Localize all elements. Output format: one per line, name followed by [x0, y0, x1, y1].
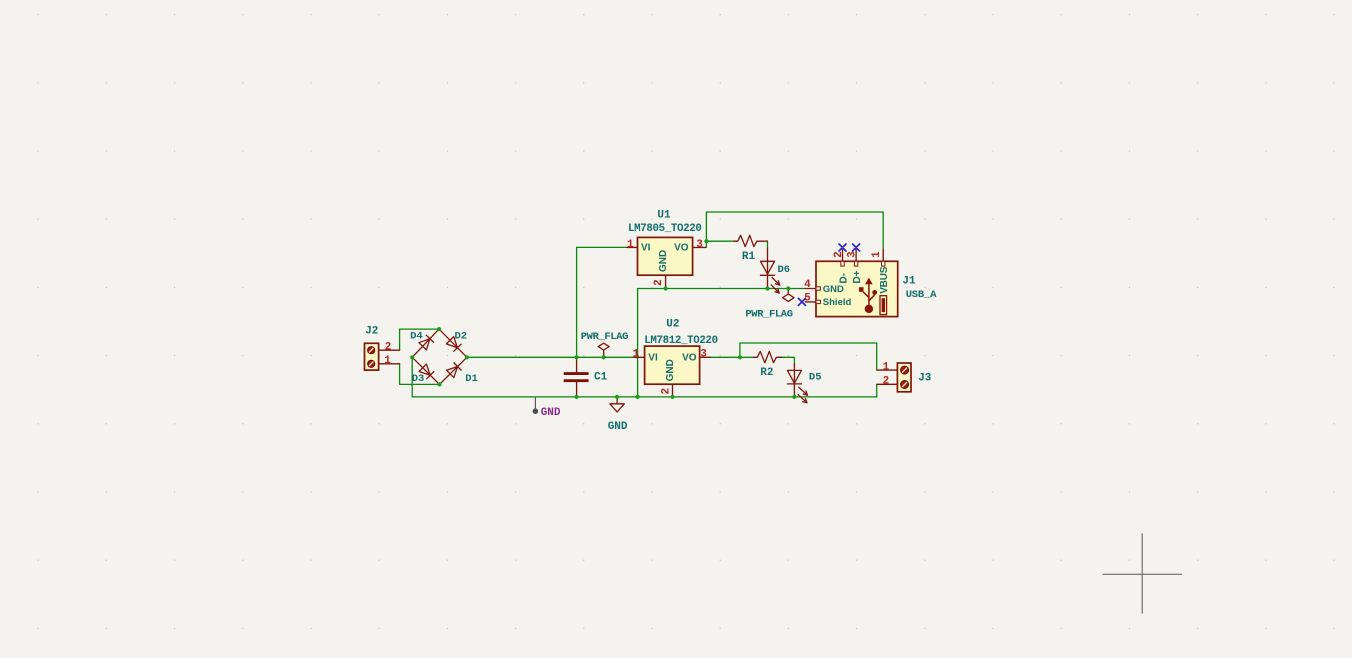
svg-text:VBUS: VBUS [879, 266, 890, 294]
svg-text:D4: D4 [410, 331, 423, 343]
svg-text:C1: C1 [594, 372, 608, 384]
svg-text:2: 2 [833, 251, 845, 258]
svg-text:1: 1 [883, 361, 890, 373]
svg-text:D6: D6 [777, 264, 790, 276]
svg-text:D2: D2 [454, 331, 467, 343]
svg-text:J3: J3 [918, 373, 932, 385]
svg-text:LM7805_TO220: LM7805_TO220 [628, 223, 702, 235]
svg-text:2: 2 [883, 376, 890, 388]
svg-text:D3: D3 [412, 373, 425, 385]
svg-text:4: 4 [804, 279, 811, 291]
svg-text:PWR_FLAG: PWR_FLAG [581, 331, 628, 343]
svg-text:Shield: Shield [823, 297, 852, 308]
svg-text:VI: VI [648, 352, 658, 363]
svg-text:3: 3 [847, 251, 859, 258]
svg-text:D5: D5 [809, 371, 822, 383]
svg-text:D1: D1 [465, 373, 478, 385]
svg-text:GND: GND [823, 284, 844, 295]
svg-text:1: 1 [871, 251, 883, 258]
svg-text:2: 2 [653, 279, 665, 286]
svg-text:LM7812_TO220: LM7812_TO220 [644, 335, 718, 347]
svg-text:2: 2 [660, 388, 672, 395]
svg-text:VO: VO [682, 352, 697, 363]
svg-text:2: 2 [385, 342, 392, 354]
svg-text:VO: VO [674, 242, 689, 253]
svg-text:D+: D+ [852, 270, 863, 283]
svg-text:1: 1 [633, 349, 640, 361]
svg-text:GND: GND [541, 407, 561, 419]
svg-text:GND: GND [658, 250, 669, 272]
svg-text:U2: U2 [666, 318, 679, 330]
svg-text:1: 1 [627, 239, 634, 251]
svg-text:J1: J1 [902, 275, 916, 287]
svg-text:5: 5 [804, 292, 811, 304]
svg-text:R1: R1 [742, 251, 756, 263]
svg-text:J2: J2 [365, 325, 378, 337]
svg-text:3: 3 [700, 349, 707, 361]
svg-text:GND: GND [665, 359, 676, 381]
svg-text:U1: U1 [657, 209, 671, 221]
svg-text:1: 1 [384, 355, 391, 367]
svg-text:D-: D- [839, 273, 850, 284]
svg-text:R2: R2 [760, 367, 773, 379]
svg-text:VI: VI [641, 242, 651, 253]
svg-text:USB_A: USB_A [906, 289, 937, 301]
svg-text:GND: GND [608, 421, 628, 433]
svg-text:3: 3 [696, 239, 703, 251]
svg-text:PWR_FLAG: PWR_FLAG [745, 308, 792, 320]
